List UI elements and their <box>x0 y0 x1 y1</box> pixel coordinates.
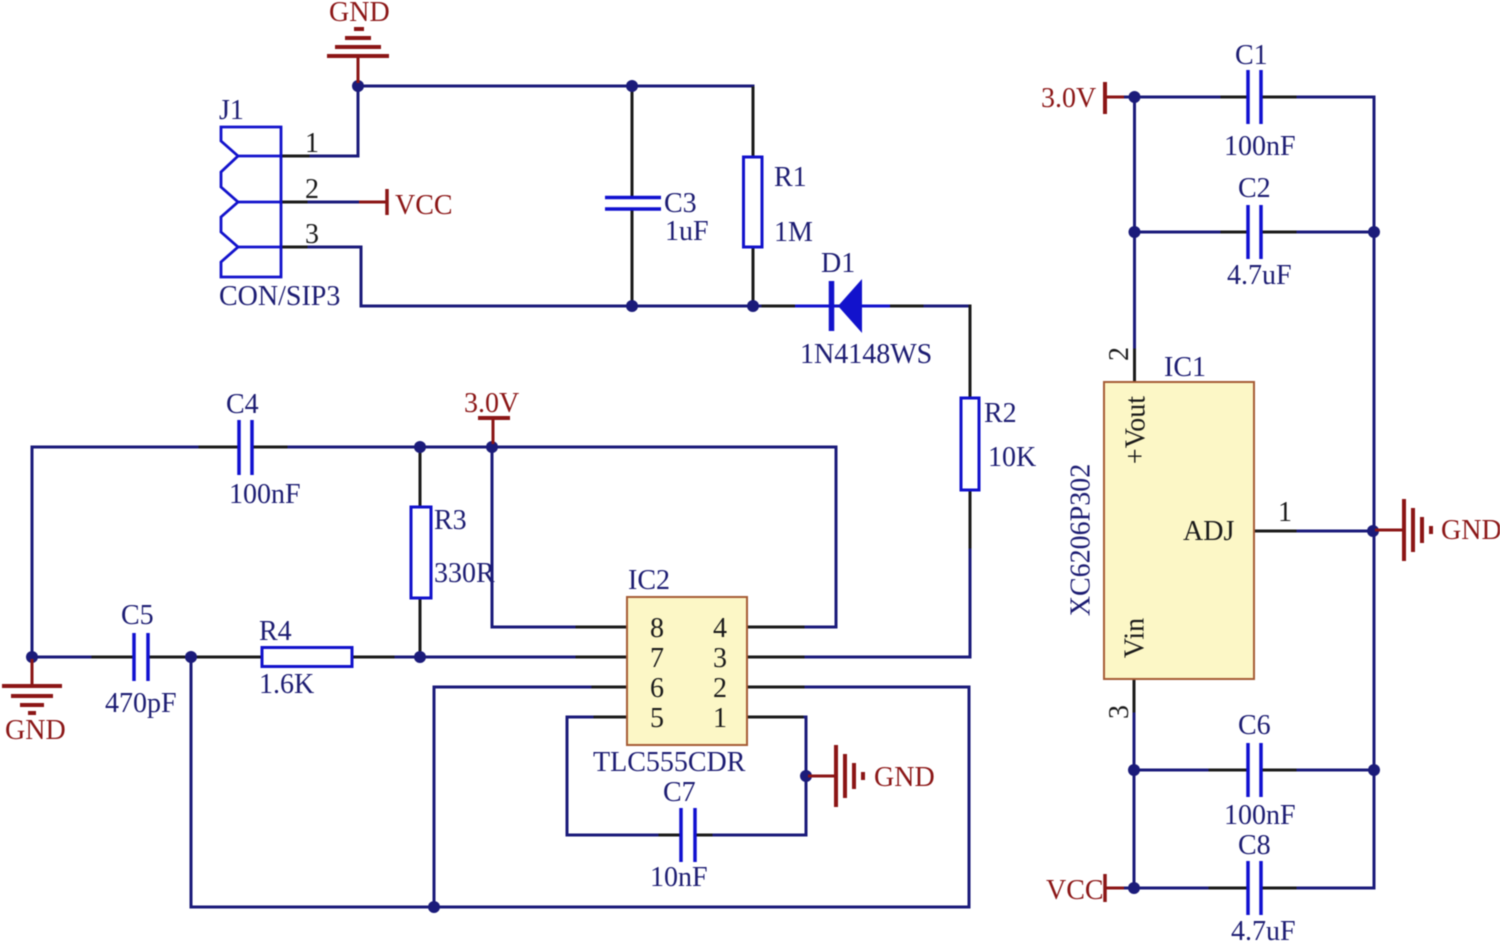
svg-text:100nF: 100nF <box>229 479 301 510</box>
power VCC left <box>359 189 387 215</box>
wire pin8 IC2 stub <box>577 626 627 629</box>
svg-text:8: 8 <box>650 613 664 644</box>
wire R4 to pin7 net <box>396 656 590 659</box>
wire pin3 to mid net <box>309 247 361 306</box>
wire pin1 stub <box>281 155 312 158</box>
junction C5-R4 <box>185 651 197 663</box>
svg-text:+Vout: +Vout <box>1120 396 1151 464</box>
svg-text:Vin: Vin <box>1119 618 1150 658</box>
wire C7 left stub <box>660 834 680 837</box>
svg-text:J1: J1 <box>219 95 244 126</box>
svg-text:1M: 1M <box>774 217 813 248</box>
svg-text:2: 2 <box>1104 347 1135 361</box>
wire corner down to pin4 <box>790 447 836 627</box>
power 3.0V left <box>478 418 510 444</box>
wire pin2 stub <box>281 201 310 204</box>
svg-text:R4: R4 <box>259 616 292 647</box>
wire pin1 IC2 stub <box>747 716 802 719</box>
wire C6 row left <box>1134 769 1212 772</box>
junction left GND <box>26 651 38 663</box>
wire D1 left stub <box>763 305 796 308</box>
wire C2 to right rail <box>1298 231 1374 234</box>
svg-text:2: 2 <box>713 673 727 704</box>
wire C6 to right rail <box>1298 769 1374 772</box>
wire pin2 IC2 stub <box>747 686 803 689</box>
svg-text:4.7uF: 4.7uF <box>1231 916 1296 947</box>
resistor R1 <box>744 157 763 247</box>
svg-text:C3: C3 <box>664 188 697 219</box>
wire R1 top lead <box>752 88 755 157</box>
capacitor C5 <box>134 633 148 681</box>
svg-text:1.6K: 1.6K <box>259 669 314 700</box>
wire pin3 down to C6 row <box>1133 714 1136 770</box>
junction at GND net and pin1 <box>352 80 364 92</box>
svg-text:100nF: 100nF <box>1224 131 1296 162</box>
capacitor C7 <box>681 808 695 862</box>
svg-text:3: 3 <box>1104 705 1135 719</box>
wire pin5 IC2 stub <box>574 716 627 719</box>
svg-text:C8: C8 <box>1238 830 1271 861</box>
wire mid horizontal net <box>361 305 970 308</box>
svg-text:VCC: VCC <box>1046 875 1104 906</box>
wire VCC rail down <box>1133 770 1136 888</box>
svg-text:GND: GND <box>1441 515 1500 546</box>
wire R4 left lead <box>191 656 262 659</box>
svg-text:100nF: 100nF <box>1224 800 1296 831</box>
wire 3.0V top rail <box>32 446 226 449</box>
wire pin2 net <box>790 686 969 689</box>
svg-text:3: 3 <box>305 219 319 250</box>
wire ADJ to right rail <box>1298 530 1373 533</box>
wire pin7 IC2 stub <box>577 656 627 659</box>
junction R3 bottom / pin7 net <box>414 651 426 663</box>
svg-text:R1: R1 <box>774 162 807 193</box>
svg-text:7: 7 <box>650 643 664 674</box>
capacitor C4 <box>239 420 252 475</box>
wire right rail vertical <box>1373 97 1376 888</box>
wire C5 row left <box>32 656 95 659</box>
svg-text:GND: GND <box>5 715 66 746</box>
svg-text:3.0V: 3.0V <box>1041 83 1096 114</box>
wire C4 right stub <box>253 446 291 449</box>
svg-text:GND: GND <box>329 0 390 28</box>
junction C2 left <box>1129 226 1141 238</box>
wire 3.0V right rail top row <box>1122 96 1224 99</box>
capacitor C8 <box>1248 861 1261 915</box>
wire C7 to pin1 <box>714 717 806 835</box>
svg-text:IC1: IC1 <box>1164 352 1206 383</box>
svg-text:C1: C1 <box>1235 40 1268 71</box>
wire D1 right stub <box>888 305 922 308</box>
wire left rail down <box>31 447 34 657</box>
wire C5 left stub <box>93 656 133 659</box>
resistor R4 <box>262 648 352 667</box>
svg-text:CON/SIP3: CON/SIP3 <box>219 281 340 312</box>
wire pin4 IC2 stub <box>747 626 803 629</box>
svg-text:C4: C4 <box>226 389 259 420</box>
wire left rail x1133 <box>1133 97 1136 352</box>
wire pin6 left and down <box>434 687 590 907</box>
wire pin1 vertical to GND net <box>357 86 360 156</box>
connector J1 <box>221 127 281 277</box>
wire C1 left stub <box>1222 96 1246 99</box>
ground right (at ADJ) <box>1375 499 1431 561</box>
wire C1 to right rail <box>1298 96 1374 99</box>
wire C4 left stub <box>200 446 237 449</box>
svg-text:3: 3 <box>713 643 727 674</box>
junction bottom rail pin6 <box>428 901 440 913</box>
wire R2 top lead <box>969 306 972 398</box>
junction C6 right <box>1368 764 1380 776</box>
svg-text:C6: C6 <box>1238 710 1271 741</box>
wire C6 left stub <box>1210 769 1246 772</box>
svg-text:4: 4 <box>713 613 727 644</box>
capacitor C3 <box>605 198 661 210</box>
wire R1 bottom lead <box>752 247 755 304</box>
capacitor C1 <box>1248 70 1261 124</box>
power VCC right <box>1105 874 1124 902</box>
svg-text:1: 1 <box>305 128 319 159</box>
wire ADJ stub <box>1254 530 1300 533</box>
wire IC1 pin3 stub <box>1133 679 1136 716</box>
wire C1 right stub <box>1263 96 1300 99</box>
svg-text:R3: R3 <box>434 505 467 536</box>
wire GND net top horizontal <box>357 85 753 88</box>
wire C2 left stub <box>1222 231 1246 234</box>
wire C2 row <box>1135 231 1225 234</box>
svg-text:C7: C7 <box>663 777 696 808</box>
wire pin3 IC2 stub <box>747 656 803 659</box>
junction C3 top <box>626 80 638 92</box>
junction C3 bottom <box>626 300 638 312</box>
svg-text:1: 1 <box>1278 497 1292 528</box>
ground at 555 pin1 <box>808 745 863 807</box>
junction 3.0V rail <box>486 441 498 453</box>
svg-text:470pF: 470pF <box>105 688 177 719</box>
junction R3 top <box>414 441 426 453</box>
wire top rail C4 to corner <box>289 446 836 449</box>
wire C3 top lead <box>631 88 634 196</box>
svg-text:GND: GND <box>874 762 935 793</box>
wire R2 to pin3 of IC2 <box>790 550 970 657</box>
svg-text:2: 2 <box>305 174 319 205</box>
svg-text:330R: 330R <box>434 558 495 589</box>
wire R4 right lead <box>352 656 398 659</box>
svg-text:C5: C5 <box>121 600 154 631</box>
svg-text:1uF: 1uF <box>665 216 709 247</box>
svg-text:VCC: VCC <box>395 190 453 221</box>
wire pin6 IC2 stub <box>577 686 627 689</box>
wire 3.0V junction down to pin8 <box>492 447 590 627</box>
resistor R2 <box>961 398 979 490</box>
svg-text:R2: R2 <box>984 398 1017 429</box>
wire pin5 down to C7 <box>567 717 662 835</box>
power 3.0V right <box>1105 82 1124 114</box>
svg-text:1N4148WS: 1N4148WS <box>800 339 932 370</box>
wire R3 bottom lead <box>419 598 422 655</box>
wire C8 left stub <box>1210 887 1246 890</box>
junction C6 left <box>1128 764 1140 776</box>
svg-text:1: 1 <box>713 703 727 734</box>
svg-text:3.0V: 3.0V <box>464 388 519 419</box>
ground top (GND symbol) <box>327 29 389 83</box>
svg-text:ADJ: ADJ <box>1183 516 1234 547</box>
junction R1 bottom <box>747 300 759 312</box>
junction VCC right <box>1128 882 1140 894</box>
IC U2 box (TLC555CDR) <box>627 597 747 745</box>
wire C8 to right rail <box>1298 887 1374 890</box>
wire C5 junction down to bottom rail <box>191 657 969 907</box>
ground bottom left <box>2 659 62 713</box>
resistor R3 <box>411 507 431 598</box>
wire C5 right stub <box>148 656 191 659</box>
svg-text:4.7uF: 4.7uF <box>1227 260 1292 291</box>
wire C3 bottom lead <box>631 211 634 304</box>
wire C8 right stub <box>1263 887 1300 890</box>
svg-text:10K: 10K <box>988 442 1036 473</box>
capacitor C2 <box>1248 205 1261 259</box>
svg-text:6: 6 <box>650 673 664 704</box>
junction 3.0V right rail <box>1129 91 1141 103</box>
IC U1 box (XC6206P302) <box>1104 382 1254 679</box>
wire R3 top lead <box>419 449 422 507</box>
svg-text:10nF: 10nF <box>650 862 708 893</box>
svg-text:C2: C2 <box>1238 173 1271 204</box>
svg-text:XC6206P302: XC6206P302 <box>1065 464 1096 616</box>
svg-text:D1: D1 <box>821 248 855 279</box>
wire C8 row left <box>1122 887 1212 890</box>
junction 555 GND <box>800 770 812 782</box>
wire pin3 stub <box>281 246 310 249</box>
svg-text:IC2: IC2 <box>628 565 670 596</box>
junction ADJ GND <box>1367 525 1379 537</box>
junction C2 right <box>1368 226 1380 238</box>
diode D1 <box>795 279 890 333</box>
svg-text:TLC555CDR: TLC555CDR <box>593 747 746 778</box>
wire IC1 pin2 stub <box>1133 350 1136 382</box>
svg-text:5: 5 <box>650 703 664 734</box>
wire C6 right stub <box>1263 769 1300 772</box>
capacitor C6 <box>1248 743 1261 797</box>
wire C7 right stub <box>695 834 716 837</box>
wire R2 bottom lead <box>969 490 972 552</box>
wire C2 right stub <box>1263 231 1300 234</box>
